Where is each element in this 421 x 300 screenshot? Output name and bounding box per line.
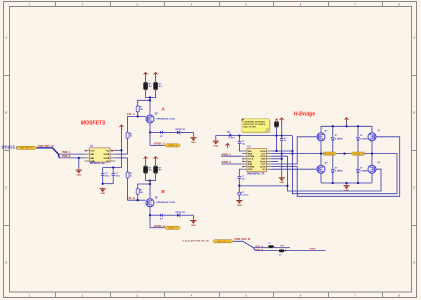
svg-text:GAT_A: GAT_A xyxy=(127,113,135,116)
svg-text:MOTOR_A: MOTOR_A xyxy=(325,152,335,155)
svg-text:EMC FILTER: EMC FILTER xyxy=(243,126,256,128)
svg-text:OUTB: OUTB xyxy=(103,158,109,160)
svg-text:S_MMSD: S_MMSD xyxy=(360,171,368,173)
svg-text:S_5V0: S_5V0 xyxy=(228,138,235,140)
svg-text:PWMA: PWMA xyxy=(248,155,255,158)
svg-text:GND: GND xyxy=(191,225,196,227)
svg-text:S_MMSD: S_MMSD xyxy=(335,171,343,173)
svg-text:SENSE_B: SENSE_B xyxy=(168,228,178,230)
svg-text:U?: U? xyxy=(248,146,252,149)
svg-text:100n: 100n xyxy=(115,175,120,177)
svg-text:GND: GND xyxy=(100,193,105,195)
svg-text:SENSE_B: SENSE_B xyxy=(154,225,165,228)
svg-text:VNH2SP30_TR: VNH2SP30_TR xyxy=(247,172,265,175)
svg-text:ENA: ENA xyxy=(248,152,253,155)
svg-text:INA: INA xyxy=(90,153,94,156)
svg-text:GND: GND xyxy=(237,205,242,207)
svg-text:100n: 100n xyxy=(105,175,110,177)
svg-text:xPWM_B: xPWM_B xyxy=(221,162,231,164)
svg-text:D?: D? xyxy=(335,135,337,137)
svg-text:GND: GND xyxy=(191,142,196,144)
svg-text:GND: GND xyxy=(90,161,95,163)
svg-text:B: B xyxy=(413,112,415,115)
svg-text:H-Bridge: H-Bridge xyxy=(294,112,316,118)
svg-text:BZT52C15: BZT52C15 xyxy=(176,212,185,214)
svg-text:GND: GND xyxy=(279,182,284,184)
svg-text:SENSE_A: SENSE_A xyxy=(154,143,165,146)
svg-text:TR?: TR? xyxy=(280,246,285,248)
svg-text:D?: D? xyxy=(335,168,337,170)
svg-text:GND: GND xyxy=(248,169,253,171)
svg-text:RFP50N06LE_TO220: RFP50N06LE_TO220 xyxy=(157,202,176,204)
svg-text:D?: D? xyxy=(360,168,362,170)
svg-text:B: B xyxy=(161,189,165,195)
svg-text:D?: D? xyxy=(360,135,362,137)
svg-text:S_MMSD: S_MMSD xyxy=(335,138,343,140)
svg-text:PWM_DRV_IN: PWM_DRV_IN xyxy=(217,241,230,243)
svg-text:CS_A: CS_A xyxy=(248,158,254,161)
svg-text:PWM_B: PWM_B xyxy=(62,156,71,158)
svg-text:MOSFETS: MOSFETS xyxy=(81,121,106,127)
svg-text:A: A xyxy=(160,107,165,113)
svg-text:C: C xyxy=(6,187,8,190)
svg-text:4k7: 4k7 xyxy=(159,169,162,172)
svg-text:D: D xyxy=(6,262,8,265)
svg-text:4k7: 4k7 xyxy=(149,85,152,88)
svg-text:B: B xyxy=(6,112,8,115)
svg-text:GND: GND xyxy=(76,174,81,176)
svg-text:A: A xyxy=(6,37,8,40)
svg-text:C: C xyxy=(413,187,415,190)
svg-text:SENSE_A: SENSE_A xyxy=(168,144,178,147)
svg-text:OUTA: OUTA xyxy=(260,155,266,158)
svg-text:H_Bridge(DIR,PWM_DRV_IN): H_Bridge(DIR,PWM_DRV_IN) xyxy=(183,241,210,243)
svg-text:xPWM_A: xPWM_A xyxy=(221,153,231,156)
svg-text:MOTOR_B: MOTOR_B xyxy=(353,153,363,155)
svg-text:PWM_DRV_IN: PWM_DRV_IN xyxy=(20,148,33,150)
svg-text:D: D xyxy=(413,262,415,265)
svg-text:GND: GND xyxy=(213,145,218,147)
svg-text:MTR?: MTR? xyxy=(310,248,317,250)
svg-text:INB: INB xyxy=(90,158,94,160)
svg-text:VCC: VCC xyxy=(90,150,95,152)
svg-text:MOT_A: MOT_A xyxy=(256,245,264,248)
svg-text:INA: INA xyxy=(248,150,252,153)
svg-text:4k7: 4k7 xyxy=(159,85,162,88)
svg-text:RFP50N06LE_TO220: RFP50N06LE_TO220 xyxy=(157,118,176,120)
svg-text:BZT52C15: BZT52C15 xyxy=(176,129,185,131)
svg-text:S_MMSD: S_MMSD xyxy=(360,138,368,140)
svg-text:U?: U? xyxy=(90,145,94,148)
svg-text:OUTA: OUTA xyxy=(260,150,266,153)
svg-text:PWM_A: PWM_A xyxy=(62,151,71,154)
svg-text:GAT_B: GAT_B xyxy=(127,197,135,200)
svg-text:OUTA: OUTA xyxy=(104,153,110,156)
svg-text:PWM_DRV_IN: PWM_DRV_IN xyxy=(234,238,250,241)
svg-text:4k7: 4k7 xyxy=(149,169,152,172)
svg-text:S_0mm: S_0mm xyxy=(241,194,248,196)
svg-text:GND: GND xyxy=(344,190,349,192)
svg-text:A: A xyxy=(413,37,415,40)
